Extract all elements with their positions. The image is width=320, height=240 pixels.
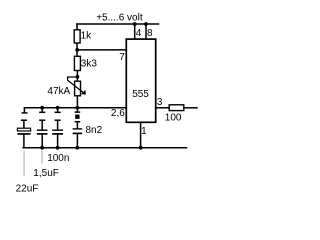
svg-text:8: 8 [147, 28, 153, 39]
wire power rail [77, 23, 159, 25]
svg-text:3k3: 3k3 [81, 58, 98, 69]
svg-text:1,5uF: 1,5uF [33, 168, 59, 179]
node bus C4 [76, 106, 80, 110]
potentiometer P1 wiper arrow [68, 77, 84, 93]
node ground pin1 [139, 146, 143, 150]
svg-text:1k: 1k [81, 31, 93, 42]
leader line 22uF [23, 151, 25, 177]
capacitor C4 8n2 with jumper [73, 108, 83, 148]
node rail pin8 [144, 22, 148, 26]
capacitor C1 22uF electrolytic [17, 108, 30, 148]
wire pin1 from IC to ground bus [140, 122, 142, 147]
capacitor C3 100n [52, 108, 63, 148]
node bus C3 [56, 106, 60, 110]
svg-text:2,6: 2,6 [111, 108, 125, 119]
IC U1 555 timer box [126, 39, 155, 122]
node junction pot wiper [76, 75, 80, 79]
leader line 1,5uF [41, 151, 43, 164]
resistor R1 1k [74, 30, 80, 43]
svg-text:7: 7 [119, 52, 125, 63]
svg-text:100n: 100n [47, 153, 69, 164]
capacitor C2 1,5uF [37, 108, 48, 148]
wire output right [184, 107, 197, 109]
svg-text:555: 555 [132, 89, 149, 100]
wire pin4 from rail to IC [134, 24, 136, 39]
svg-text:100: 100 [165, 113, 182, 124]
node bus C2 [40, 106, 44, 110]
wire rail to R1 top [76, 24, 78, 30]
wire pin8 from rail to IC [145, 24, 147, 39]
potentiometer P1 47kA body [75, 81, 81, 96]
svg-text:3: 3 [157, 97, 163, 108]
node ground C3 [56, 146, 60, 150]
svg-text:4: 4 [136, 28, 142, 39]
svg-text:1: 1 [141, 126, 147, 137]
wire pin7 from node to IC [77, 49, 126, 51]
resistor R2 3k3 [74, 56, 80, 70]
node ground C2 [40, 146, 44, 150]
svg-text:+5....6 volt: +5....6 volt [96, 13, 143, 24]
node ground C4 [76, 146, 80, 150]
svg-text:8n2: 8n2 [86, 125, 103, 136]
node rail pin4 [133, 22, 137, 26]
svg-text:22uF: 22uF [16, 184, 39, 195]
node junction R1/R2 pin7 [75, 48, 79, 52]
svg-text:47kA: 47kA [47, 86, 70, 97]
wire R2 bottom to pot top [76, 71, 78, 82]
resistor R4 100 output [169, 105, 184, 111]
wire top bus pins 2,6 [24, 107, 126, 109]
wire pin3 from IC to R4 [156, 107, 170, 109]
wire pot bottom to bus [76, 96, 78, 108]
wire R1 bottom to R2 top [76, 43, 78, 56]
wire ground bus [23, 147, 186, 149]
